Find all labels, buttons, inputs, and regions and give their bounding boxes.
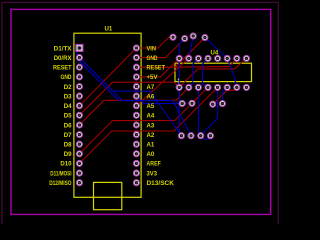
wire P4 to U4 pin6: [205, 38, 227, 59]
svg-text:D7: D7: [64, 132, 72, 139]
pad U1.RESET: [76, 64, 82, 70]
svg-text:A7: A7: [147, 84, 155, 91]
pad U1.A1: [133, 141, 139, 147]
wire D0/RX parallel strand: [78, 60, 120, 102]
svg-text:D4: D4: [64, 103, 72, 110]
pad U1.RESET: [133, 64, 139, 70]
pad U4 bottom 5: [215, 84, 221, 90]
pad via W2: [188, 133, 194, 139]
pad U4 top 3: [195, 55, 201, 61]
U4 pin-1 marker dot: [178, 78, 180, 80]
svg-text:D11/MOSI: D11/MOSI: [50, 170, 71, 177]
pad U4 bottom 7: [234, 84, 240, 90]
pad U1.3V3: [133, 170, 139, 176]
wire D0/RX to via W2: [79, 58, 191, 136]
svg-text:GND: GND: [147, 55, 158, 62]
pad U4 top 5: [215, 55, 221, 61]
pad via W3: [198, 133, 204, 139]
pad U1.D10: [76, 160, 82, 166]
pad via V1: [179, 101, 185, 107]
svg-text:D10: D10: [60, 161, 72, 168]
pad U1.D5: [76, 112, 82, 118]
pad U1.+5V: [133, 74, 139, 80]
pad U1.D4: [76, 103, 82, 109]
pad P3: [190, 33, 196, 39]
wire U4 pin11 to via: [222, 87, 227, 103]
svg-text:A4: A4: [147, 113, 155, 120]
U4 pin1 stub: [178, 80, 180, 85]
pad via W4: [207, 133, 213, 139]
pad U4 top 6: [224, 55, 230, 61]
svg-text:D0/RX: D0/RX: [54, 55, 73, 62]
svg-text:U1: U1: [105, 25, 113, 32]
pad U4 top 1: [176, 55, 182, 61]
pad U1.D3: [76, 93, 82, 99]
wire U4 pin12 hook: [203, 87, 217, 139]
svg-text:A1: A1: [147, 142, 155, 149]
pad U4 bottom 2: [186, 84, 192, 90]
pad U1.D13/SCK: [133, 180, 139, 186]
wire via row to U4 pin11: [213, 87, 237, 104]
svg-text:A2: A2: [147, 132, 155, 139]
wire P2 bus down: [179, 39, 184, 136]
pad U4 top 2: [186, 55, 192, 61]
svg-text:D6: D6: [64, 122, 72, 129]
svg-text:A0: A0: [147, 151, 155, 158]
wire D6 to U4 pin15: [79, 87, 188, 125]
pad U1.D11/MOSI: [76, 170, 82, 176]
wire D9 to U4 pin13: [79, 87, 207, 153]
wire GND to P2: [136, 39, 184, 58]
svg-text:GND: GND: [61, 74, 72, 81]
pad U1.A0: [133, 151, 139, 157]
pad U1.D6: [76, 122, 82, 128]
pad U4 bottom 6: [224, 84, 230, 90]
wire D4-VIN airwire: [79, 48, 136, 106]
pad U4 bottom 3: [195, 84, 201, 90]
pad via V3: [210, 101, 216, 107]
svg-text:3V3: 3V3: [147, 170, 158, 177]
pad P4: [202, 35, 208, 41]
pad U4 top 7: [234, 55, 240, 61]
svg-text:D2: D2: [64, 84, 72, 91]
svg-text:D9: D9: [64, 151, 72, 158]
svg-text:+5V: +5V: [147, 74, 159, 81]
pad U1.D12/MISO: [76, 180, 82, 186]
svg-text:A3: A3: [147, 122, 155, 129]
wire VIN to P1: [136, 37, 173, 48]
pad via V4: [219, 101, 225, 107]
pad U4 bottom 1: [176, 84, 182, 90]
pad U1.D7: [76, 132, 82, 138]
svg-text:D12/MISO: D12/MISO: [49, 180, 71, 187]
wire RESET branch to U4 pin7: [175, 58, 237, 67]
svg-text:D13/SCK: D13/SCK: [147, 180, 175, 187]
wire D10 to U4 pin12: [79, 87, 217, 163]
svg-text:D1/TX: D1/TX: [54, 45, 73, 52]
svg-text:RESET: RESET: [147, 65, 166, 72]
IC U1 outline: [74, 33, 141, 197]
svg-text:D3: D3: [64, 93, 72, 100]
pad via V2: [189, 100, 195, 106]
pad U1.D8: [76, 141, 82, 147]
pad P1: [170, 34, 176, 40]
wire U4 pin6 to pin10: [227, 58, 237, 87]
wire U4 pin3 to pin15: [189, 58, 199, 87]
svg-text:D5: D5: [64, 113, 72, 120]
pad U1.A6: [133, 93, 139, 99]
wire +5V to U4 pin1: [136, 58, 179, 77]
board outline: [11, 9, 271, 214]
pad U1.D1/TX (square pin-1): [76, 45, 83, 52]
svg-text:A6: A6: [147, 93, 155, 100]
pad U1.VIN: [133, 45, 139, 51]
svg-text:RESET: RESET: [53, 65, 72, 72]
pad U1.D9: [76, 151, 82, 157]
pad U1.D0/RX: [76, 55, 82, 61]
pad U1.A5: [133, 103, 139, 109]
pad U4 bottom 4: [205, 84, 211, 90]
pad U4 top 4: [205, 55, 211, 61]
pad U4 bottom 8: [243, 84, 249, 90]
pad U1.GND: [76, 74, 82, 80]
svg-text:AREF: AREF: [147, 161, 162, 168]
wire RESET to P4: [136, 38, 205, 68]
svg-text:VIN: VIN: [147, 45, 157, 52]
pad U1.A7: [133, 84, 139, 90]
pad U1.GND: [133, 55, 139, 61]
pad U1.A2: [133, 132, 139, 138]
wire D1/TX net bottom-layer: [76, 48, 181, 136]
IC U4 outline: [175, 63, 252, 81]
connector J1 (USB) outline: [94, 182, 122, 209]
pad U4 top 8: [243, 55, 249, 61]
svg-text:D8: D8: [64, 142, 72, 149]
wire U4 pin14 down to via: [198, 87, 200, 135]
pad U1.A4: [133, 112, 139, 118]
wire P3 to U4 pin2: [189, 36, 193, 58]
pad P2: [182, 36, 188, 42]
wire U4 pin4 to pin13: [202, 58, 208, 87]
pad U1.A3: [133, 122, 139, 128]
wire D5 to U4 pin8 via pin16: [79, 58, 246, 115]
wire A5-U4 pin2 airwire: [136, 58, 188, 105]
pad U1.D2: [76, 84, 82, 90]
wire A6 to via V1: [136, 96, 182, 103]
svg-text:A5: A5: [147, 103, 155, 110]
pad via W1: [178, 133, 184, 139]
pad U1.AREF: [133, 160, 139, 166]
